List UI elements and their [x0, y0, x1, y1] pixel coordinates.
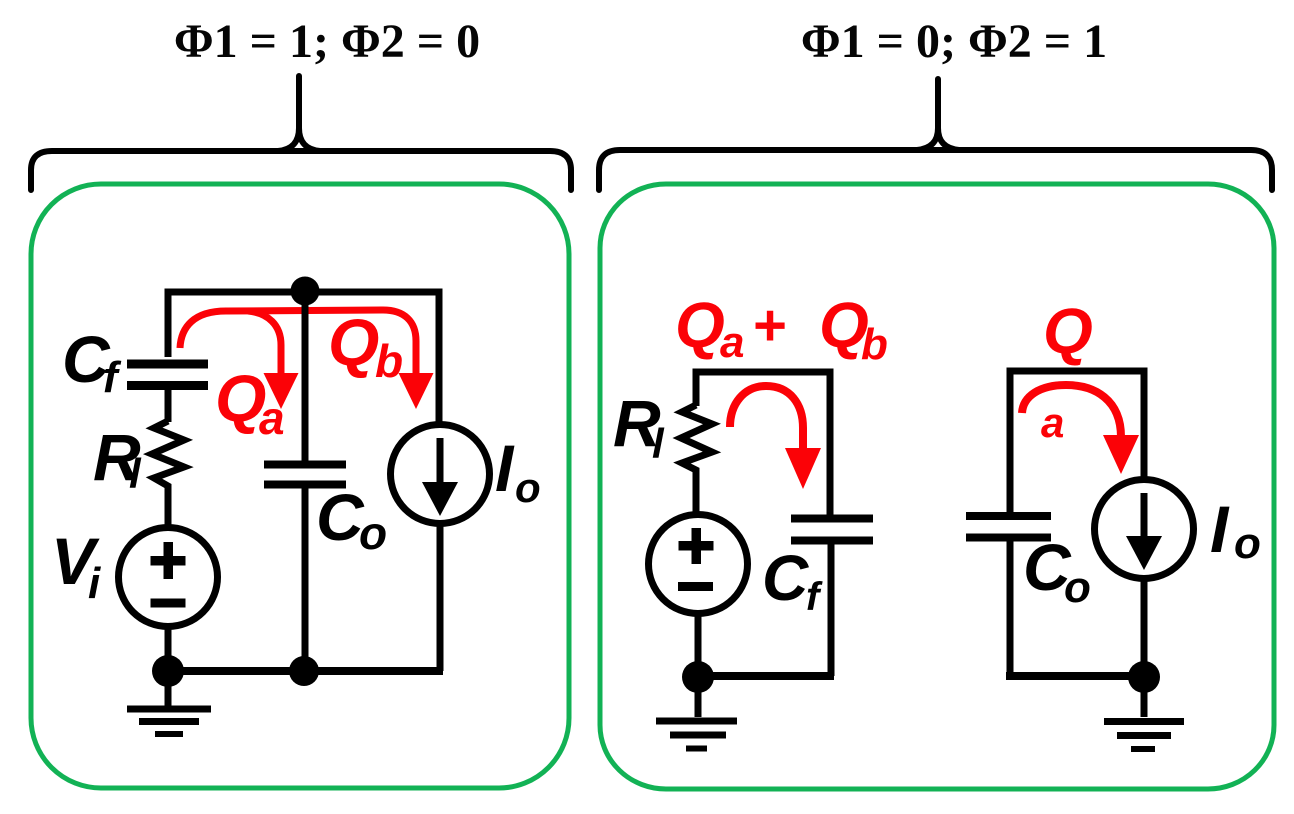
- svg-text:o: o: [1234, 519, 1261, 568]
- svg-text:Q: Q: [328, 305, 379, 379]
- svg-text:l: l: [652, 420, 665, 467]
- svg-text:o: o: [1064, 563, 1091, 612]
- svg-text:C: C: [316, 480, 365, 554]
- svg-text:l: l: [129, 450, 142, 497]
- svg-text:o: o: [515, 464, 541, 511]
- svg-text:o: o: [359, 507, 387, 559]
- svg-text:Q: Q: [675, 289, 725, 361]
- svg-text:Φ1 = 1; Φ2 = 0: Φ1 = 1; Φ2 = 0: [174, 15, 480, 68]
- svg-text:I: I: [495, 431, 515, 505]
- svg-text:Q: Q: [1043, 295, 1093, 367]
- svg-text:a: a: [1041, 399, 1064, 446]
- svg-text:b: b: [375, 335, 403, 387]
- svg-text:a: a: [259, 392, 285, 444]
- svg-text:i: i: [88, 559, 101, 608]
- svg-text:b: b: [861, 320, 888, 369]
- svg-text:C: C: [762, 542, 809, 614]
- svg-text:I: I: [1210, 492, 1230, 566]
- svg-text:Φ1 = 0; Φ2 = 1: Φ1 = 0; Φ2 = 1: [801, 15, 1107, 68]
- svg-text:a: a: [720, 318, 744, 367]
- svg-text:+: +: [752, 293, 786, 358]
